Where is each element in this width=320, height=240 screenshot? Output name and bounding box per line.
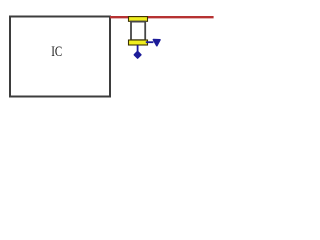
- wire (blue stub down): [137, 45, 139, 52]
- node (blue diamond terminal, bottom): [134, 51, 141, 58]
- node (blue diamond terminal, right): [153, 40, 160, 46]
- fuse F1: top plate: [129, 17, 148, 22]
- fuse F1: body: [131, 22, 145, 41]
- wire (blue stub right): [146, 41, 154, 43]
- fuse F1: bottom plate: [129, 40, 148, 45]
- wire (red net from IC to right edge): [110, 16, 214, 18]
- svg-text:IC: IC: [51, 44, 62, 60]
- IC U1 (body outline): [10, 17, 110, 97]
